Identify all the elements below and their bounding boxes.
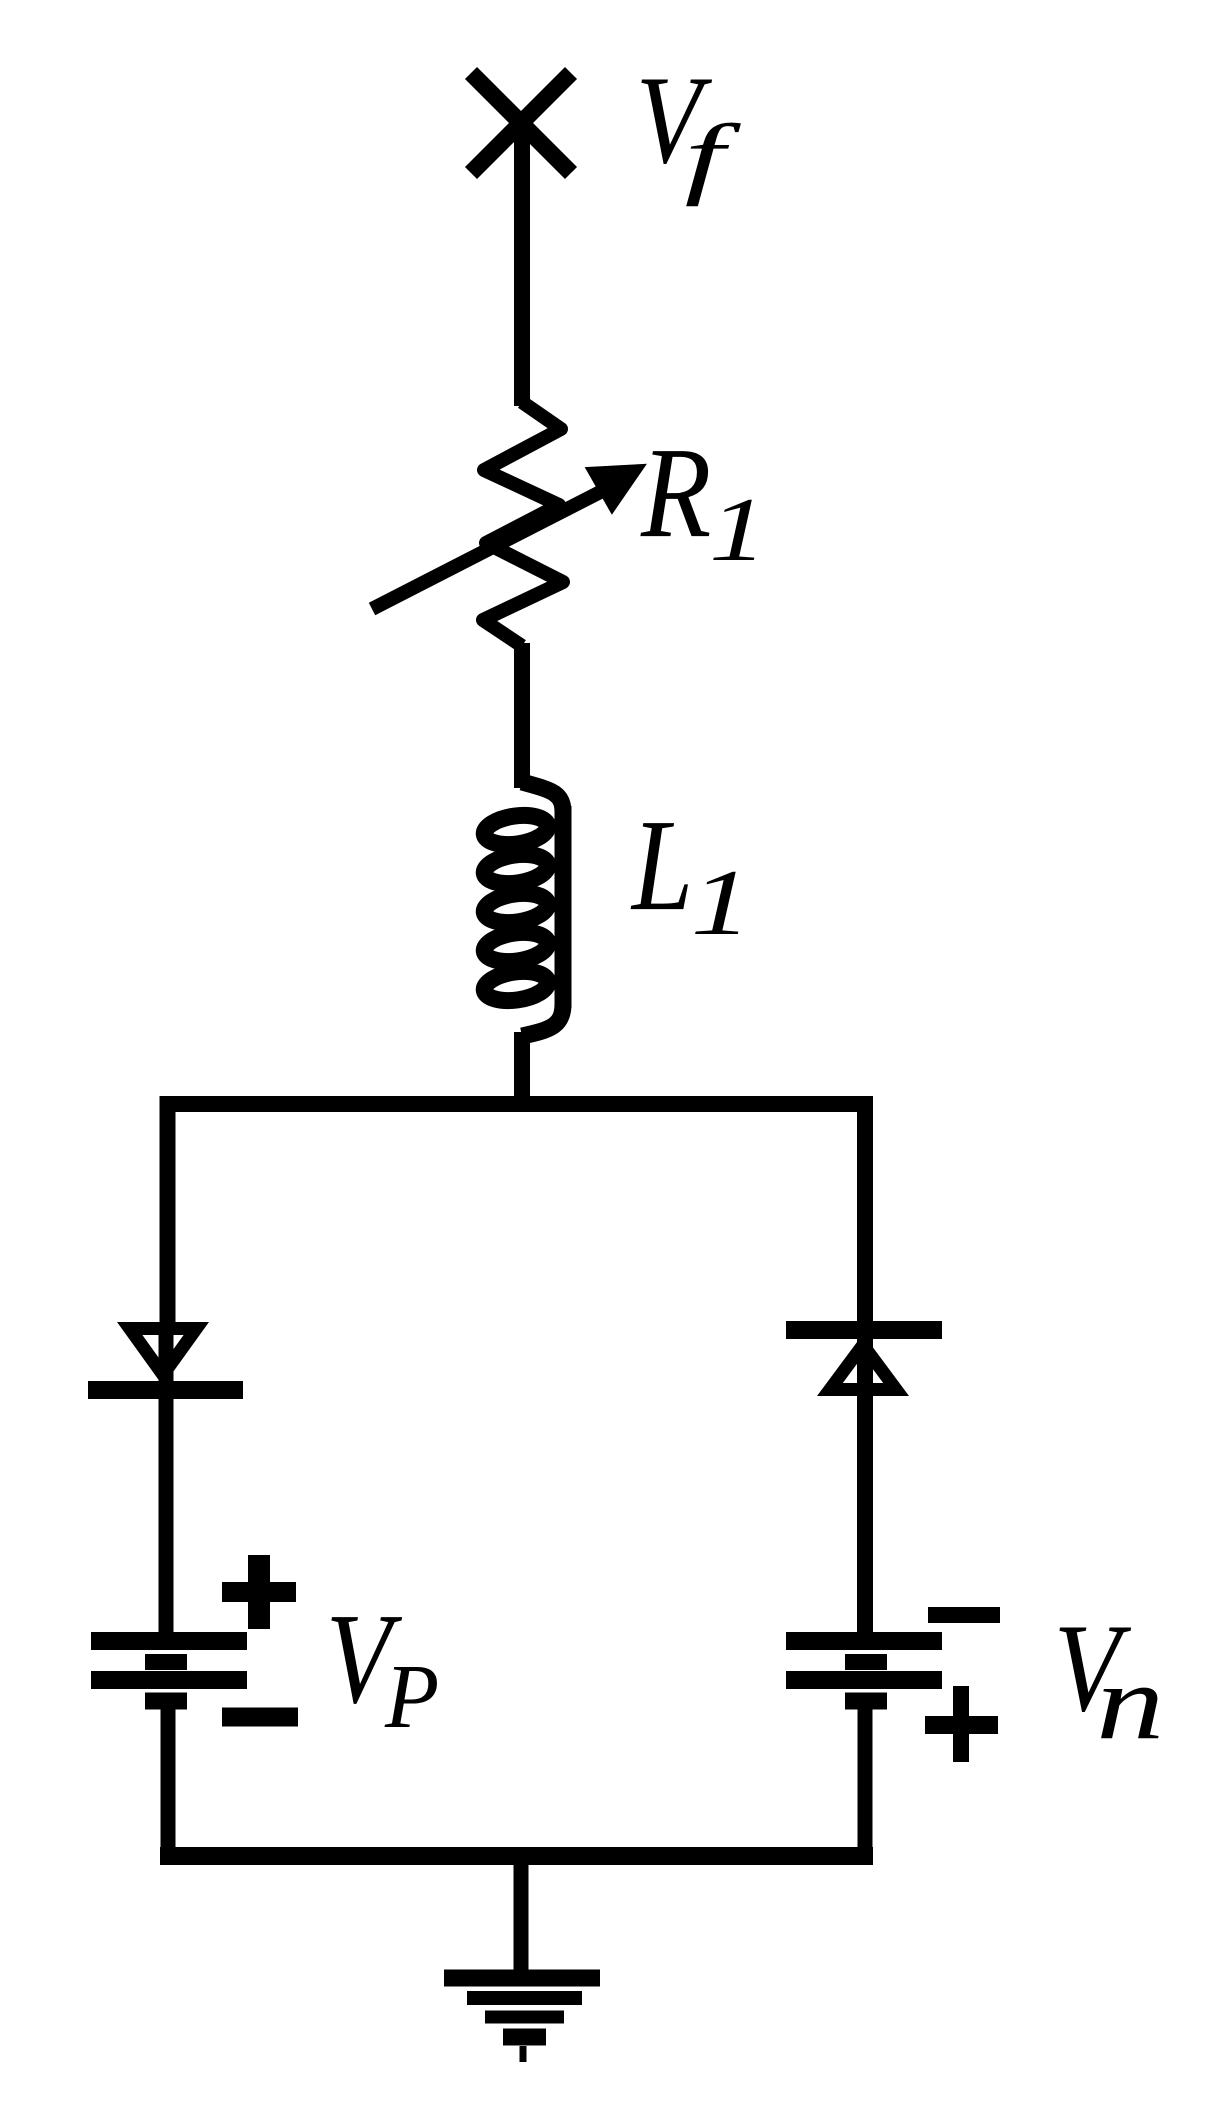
cathode bar of D1 <box>88 1381 243 1399</box>
wire top bus to right diode <box>857 1096 873 1330</box>
wire top bus to left diode <box>160 1096 176 1330</box>
svg-text:f: f <box>685 106 742 207</box>
label Vn <box>1054 1598 1165 1762</box>
battery VP plates <box>91 1641 247 1701</box>
minus sign of Vn <box>928 1607 1000 1623</box>
ground symbol <box>444 1978 600 2062</box>
cathode bar of D2 (right diode, top) <box>786 1321 942 1339</box>
wire from R1 to L1 <box>514 643 530 788</box>
plus sign of VP <box>222 1555 296 1629</box>
bottom bus wire <box>160 1847 873 1865</box>
svg-text:n: n <box>1096 1643 1164 1762</box>
arrow of variable resistor R1 <box>372 466 643 609</box>
wire D1 to battery VP <box>159 1390 174 1642</box>
battery Vn plates <box>786 1641 942 1701</box>
wire through D2 to battery Vn <box>857 1330 873 1642</box>
svg-text:1: 1 <box>691 851 752 955</box>
top bus wire <box>160 1096 873 1112</box>
resistor R1 (variable, zigzag) <box>483 402 563 646</box>
minus sign of VP <box>222 1708 298 1727</box>
label R1 <box>640 421 767 580</box>
inductor L1 (coil) <box>482 782 563 1036</box>
svg-text:1: 1 <box>709 480 767 580</box>
svg-text:R: R <box>640 421 711 565</box>
wire Vn to bottom bus <box>858 1701 873 1857</box>
label VP <box>326 1587 439 1748</box>
wire through D1 <box>159 1326 174 1392</box>
terminal X (antenna input) <box>471 73 571 173</box>
wire from L1 to top bus <box>514 1032 530 1104</box>
diode D2 (right, pointing up) <box>817 1334 909 1396</box>
plus sign of Vn <box>925 1686 998 1762</box>
label Vf <box>636 50 742 206</box>
wire VP to bottom bus <box>161 1701 176 1857</box>
diode D1 (left, pointing down) <box>117 1322 209 1386</box>
svg-text:L: L <box>630 793 693 938</box>
wire from terminal to R1 <box>514 123 530 406</box>
label L1 <box>630 793 751 955</box>
wire bottom bus to ground <box>514 1856 529 1972</box>
svg-text:P: P <box>384 1647 439 1747</box>
